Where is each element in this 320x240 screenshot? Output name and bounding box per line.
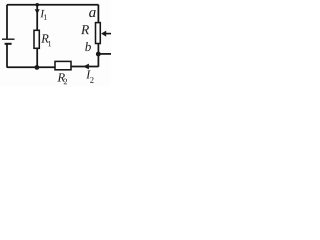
arrow I2 head xyxy=(83,64,89,70)
label R1 xyxy=(41,34,49,42)
wire right branch lower xyxy=(97,44,99,67)
label I2 xyxy=(86,71,91,79)
wire left lower xyxy=(6,44,8,68)
label R xyxy=(81,25,89,34)
wire bottom left xyxy=(7,66,55,68)
battery B1 short plate xyxy=(5,43,12,45)
node bottom junction dot xyxy=(35,65,40,70)
label R2 xyxy=(57,73,65,81)
resistor R1 xyxy=(34,30,39,48)
battery B1 long plate xyxy=(2,38,15,40)
label I1 xyxy=(40,10,44,17)
arrow I1 head xyxy=(35,9,40,14)
node right junction dot xyxy=(96,52,101,57)
wire middle branch lower xyxy=(36,49,38,67)
wire right branch upper xyxy=(97,5,99,23)
label a xyxy=(89,10,95,17)
wire stub to right edge xyxy=(98,53,111,55)
rheostat wiper arrow xyxy=(106,33,111,35)
wire left upper xyxy=(6,5,8,40)
wire middle branch upper xyxy=(36,5,38,31)
label b xyxy=(85,42,91,51)
wire top xyxy=(7,4,99,6)
node top junction dot xyxy=(35,3,39,7)
rheostat R xyxy=(96,23,101,44)
wire bottom right xyxy=(71,66,98,68)
resistor R2 xyxy=(55,61,71,69)
